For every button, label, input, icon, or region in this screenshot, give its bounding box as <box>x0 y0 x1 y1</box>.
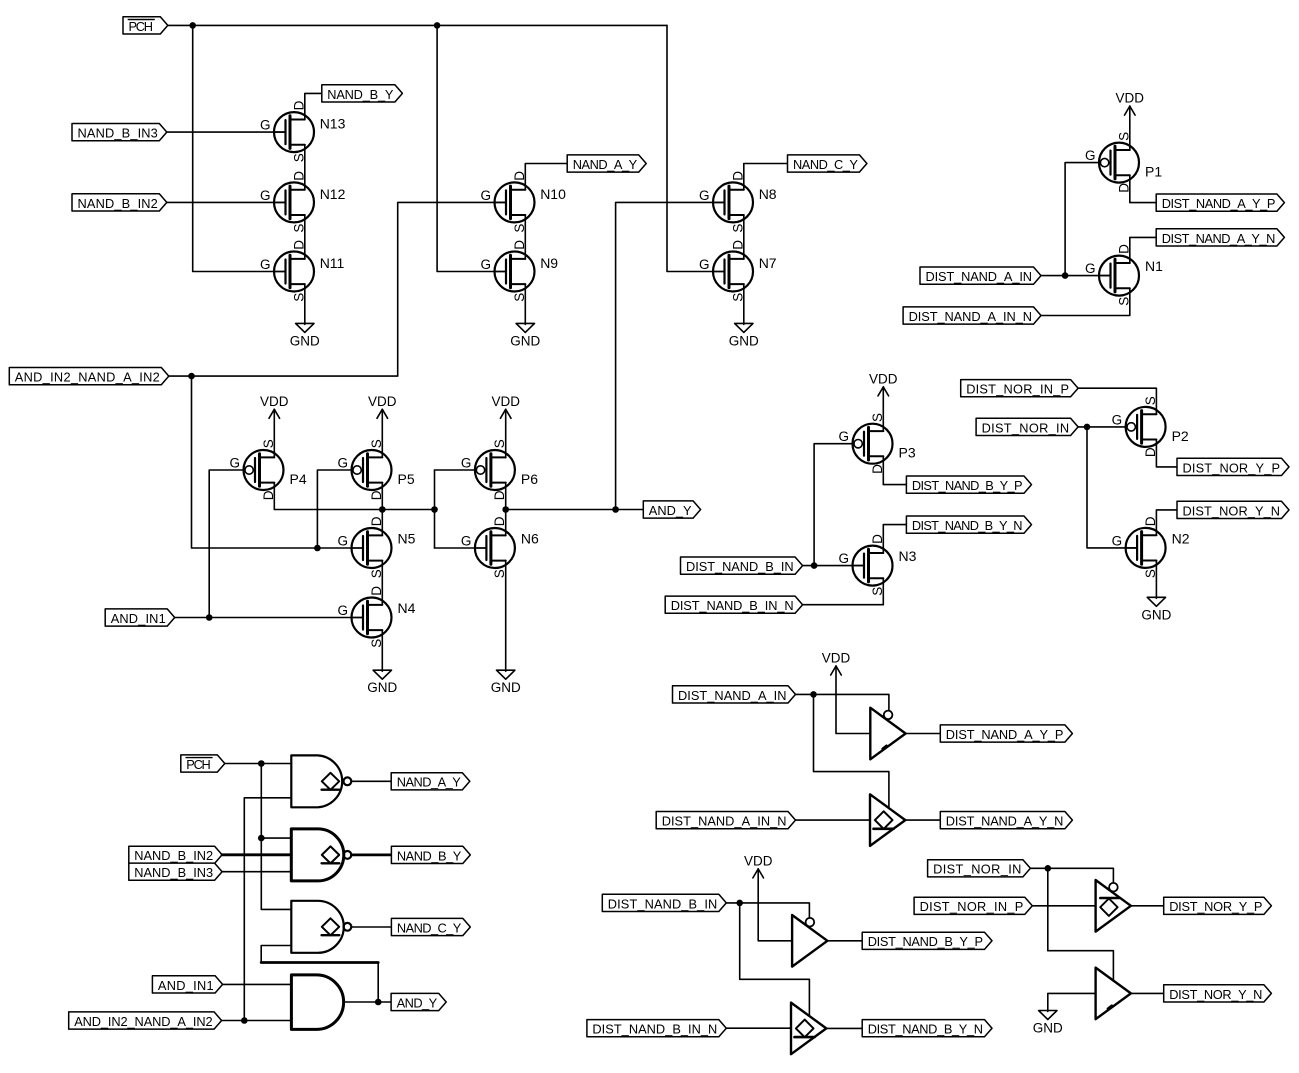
svg-text:DIST_NAND_A_Y_P: DIST_NAND_A_Y_P <box>946 727 1064 742</box>
wire AND_IN1 to N4 gate <box>175 617 363 619</box>
wire buffer B output <box>905 819 940 821</box>
svg-text:NAND_C_Y: NAND_C_Y <box>793 157 858 172</box>
wire DIST_NOR_IN_P to P2.S <box>1078 388 1156 414</box>
svg-text:VDD: VDD <box>744 853 773 868</box>
wire N6.D <box>505 510 507 536</box>
svg-text:PCH: PCH <box>186 757 211 772</box>
label DIST_NAND_A_Y_N (top) <box>1156 229 1284 246</box>
svg-text:N6: N6 <box>521 531 539 547</box>
wire AND_IN1 to P4 gate <box>209 470 245 618</box>
wire PCH to N9 gate <box>437 25 506 271</box>
svg-text:S: S <box>492 439 507 448</box>
svg-text:GND: GND <box>1141 607 1171 622</box>
svg-text:DIST_NOR_Y_N: DIST_NOR_Y_N <box>1183 503 1281 518</box>
svg-text:AND_IN2_NAND_A_IN2: AND_IN2_NAND_A_IN2 <box>74 1014 212 1029</box>
svg-text:G: G <box>337 456 348 471</box>
svg-text:DIST_NOR_Y_N: DIST_NOR_Y_N <box>1169 987 1262 1002</box>
svg-text:NAND_B_IN2: NAND_B_IN2 <box>78 196 158 211</box>
svg-text:P5: P5 <box>398 471 415 487</box>
wire P2.D to DIST_NOR_Y_P <box>1156 440 1177 467</box>
svg-text:VDD: VDD <box>822 651 851 666</box>
wire VDD to P1.S <box>1129 106 1131 150</box>
label DIST_NOR_Y_P (top) <box>1177 458 1289 475</box>
junction PCH <box>258 760 265 767</box>
transistor N10 <box>480 171 566 233</box>
tri-state buffer (DIST_NAND_A_Y_P) <box>870 708 905 760</box>
wire DIST_NAND_A_IN_N to N1.S <box>1041 288 1130 315</box>
svg-text:G: G <box>461 534 472 549</box>
label NAND_B_IN3 (bottom) <box>129 863 222 880</box>
wire AND_Y to N8 gate <box>616 202 725 509</box>
svg-text:G: G <box>838 429 849 444</box>
svg-text:PCH: PCH <box>129 19 154 34</box>
svg-text:N11: N11 <box>320 255 345 271</box>
svg-text:NAND_B_IN2: NAND_B_IN2 <box>134 848 213 863</box>
label DIST_NAND_B_Y_P (top) <box>906 476 1031 493</box>
svg-text:AND_Y: AND_Y <box>397 995 438 1010</box>
transistor N7 <box>699 240 777 302</box>
svg-text:DIST_NAND_B_IN: DIST_NAND_B_IN <box>686 559 794 574</box>
svg-text:VDD: VDD <box>260 394 289 409</box>
ground (N6) <box>491 670 521 695</box>
svg-text:G: G <box>699 257 710 272</box>
wire DIST_NAND_A_IN to P1 gate <box>1065 163 1100 276</box>
svg-text:G: G <box>229 456 240 471</box>
label NAND_C_Y (bottom) <box>391 918 470 935</box>
label AND_IN2_NAND_A_IN2 (bottom) <box>69 1012 222 1029</box>
svg-text:N7: N7 <box>759 255 777 271</box>
tri-state buffer (DIST_NAND_B_Y_N) <box>791 1003 826 1055</box>
label DIST_NAND_A_IN (top) <box>920 267 1041 284</box>
wire AND_IN2 to NAND A input <box>244 798 291 1021</box>
svg-text:P2: P2 <box>1172 428 1189 444</box>
transistor P4 <box>229 439 306 500</box>
wire N7.S to GND <box>743 284 745 324</box>
wire P4.D to NAND node <box>274 483 434 510</box>
wire DIST_NOR_IN to P2 gate <box>1078 426 1127 428</box>
wire N10 drain to NAND_A_Y <box>525 164 567 190</box>
label DIST_NAND_A_IN (bottom) <box>673 686 796 703</box>
wire buffer F output <box>1130 992 1164 994</box>
wire N8 drain to NAND_C_Y <box>744 164 788 190</box>
transistor N2 <box>1112 516 1190 578</box>
wire N5.S-N4.D <box>381 560 383 605</box>
svg-text:AND_IN1: AND_IN1 <box>158 978 214 993</box>
wire VDD to P3.S <box>882 387 884 431</box>
svg-text:DIST_NAND_B_Y_N: DIST_NAND_B_Y_N <box>912 518 1023 533</box>
svg-text:P1: P1 <box>1145 164 1162 180</box>
wire N11.S to GND <box>304 284 306 324</box>
junction DIST_NAND_B_IN (bottom) <box>736 900 743 907</box>
label NAND_A_Y (bottom) <box>391 773 470 790</box>
svg-text:G: G <box>337 534 348 549</box>
wire DIST_NOR_IN to buffer F enable <box>1048 868 1114 981</box>
wire DIST_NOR_IN to N2 gate <box>1087 427 1137 548</box>
label DIST_NAND_A_Y_P (bottom) <box>940 725 1072 742</box>
NAND gate A <box>291 755 351 807</box>
wire DIST_NAND_B_IN to P3 gate <box>814 444 854 566</box>
svg-text:G: G <box>1085 261 1096 276</box>
svg-text:VDD: VDD <box>491 394 520 409</box>
svg-text:DIST_NOR_IN_P: DIST_NOR_IN_P <box>920 899 1024 914</box>
svg-text:GND: GND <box>290 333 320 348</box>
svg-text:G: G <box>480 257 491 272</box>
wire P5.D <box>381 483 383 510</box>
svg-text:AND_Y: AND_Y <box>649 503 692 518</box>
ground (N2) <box>1141 597 1171 622</box>
svg-text:AND_IN2_NAND_A_IN2: AND_IN2_NAND_A_IN2 <box>15 370 160 385</box>
label DIST_NOR_Y_N (top) <box>1177 501 1289 518</box>
tri-state buffer (DIST_NAND_B_Y_P) <box>792 915 827 967</box>
svg-text:G: G <box>260 257 271 272</box>
wire NAND A output <box>352 780 392 782</box>
wire buffer C output <box>827 940 862 942</box>
wire buffer E output <box>1130 905 1164 907</box>
svg-text:P3: P3 <box>899 445 916 461</box>
power VDD (buffer A) <box>822 651 851 676</box>
label AND_Y (bottom) <box>391 993 446 1010</box>
wire DIST_NAND_B_IN_N to N3.S <box>803 578 884 605</box>
wire DIST_NAND_B_IN to N3 gate <box>803 565 864 567</box>
svg-text:G: G <box>260 188 271 203</box>
label AND_Y (top) <box>643 501 700 518</box>
svg-text:G: G <box>480 188 491 203</box>
transistor N8 <box>699 171 777 233</box>
transistor N13 <box>260 100 346 162</box>
transistor P3 <box>838 413 915 474</box>
wire AND_IN2 to N5 gate <box>192 376 364 548</box>
wire feedback to AND_Y <box>377 963 379 1003</box>
transistor P5 <box>337 439 414 500</box>
junction AND_Y drains <box>502 506 509 513</box>
label DIST_NOR_IN (bottom) <box>928 860 1031 877</box>
svg-text:G: G <box>260 118 271 133</box>
power VDD (P6) <box>491 394 520 419</box>
transistor N5 <box>337 516 415 578</box>
junction DIST_NAND_A_IN <box>1062 272 1069 279</box>
svg-text:N13: N13 <box>320 116 346 132</box>
wire AND_Y feedback (bold) <box>261 961 378 964</box>
svg-text:DIST_NAND_A_IN_N: DIST_NAND_A_IN_N <box>909 309 1032 324</box>
transistor N9 <box>480 240 558 302</box>
svg-text:DIST_NAND_B_Y_N: DIST_NAND_B_Y_N <box>868 1022 983 1037</box>
svg-text:NAND_A_Y: NAND_A_Y <box>397 775 462 790</box>
transistor P2 <box>1112 396 1189 457</box>
svg-text:S: S <box>369 439 384 448</box>
svg-text:N12: N12 <box>320 186 346 202</box>
svg-text:VDD: VDD <box>1116 91 1145 106</box>
wire N3.D to DIST_NAND_B_Y_N <box>883 525 906 553</box>
label DIST_NOR_Y_N (bottom) <box>1164 985 1272 1002</box>
junction DIST_NOR_IN <box>1084 424 1091 431</box>
wire VDD to P5.S <box>381 409 383 457</box>
AND gate <box>291 975 343 1030</box>
label DIST_NAND_A_IN_N (top) <box>903 307 1041 324</box>
junction PCH / N9 gate <box>434 22 441 29</box>
wire N4.S to GND <box>381 630 383 671</box>
wire NAND C output <box>352 926 392 928</box>
transistor N1 <box>1085 244 1163 306</box>
svg-text:S: S <box>261 439 276 448</box>
svg-text:VDD: VDD <box>368 394 397 409</box>
svg-text:NAND_B_Y: NAND_B_Y <box>397 848 462 863</box>
svg-text:S: S <box>870 413 885 422</box>
wire PCH to N11 gate <box>193 25 285 271</box>
ground (N4) <box>367 670 397 695</box>
svg-text:N3: N3 <box>899 548 917 564</box>
wire N8.S-N7.D <box>743 215 745 259</box>
junction DIST_NOR_IN (bottom) <box>1045 865 1052 872</box>
wire N10.S-N9.D <box>524 215 526 259</box>
tri-state buffer (DIST_NAND_A_Y_N) <box>870 794 905 846</box>
svg-text:DIST_NOR_Y_P: DIST_NOR_Y_P <box>1183 460 1281 475</box>
transistor P6 <box>461 439 538 500</box>
ground (stack N7) <box>729 323 759 348</box>
wire DIST_NOR_IN_P to buffer E <box>1032 905 1095 907</box>
wire DIST_NAND_B_IN to buffer D enable <box>740 903 810 1016</box>
wire to P6 gate <box>435 469 477 471</box>
wire PCH to NAND A input <box>225 763 291 765</box>
wire NAND C feedback elbow <box>261 946 291 963</box>
svg-text:AND_IN1: AND_IN1 <box>111 611 166 626</box>
wire N13.S-N12.D <box>304 145 306 190</box>
label DIST_NOR_IN (top) <box>976 418 1078 435</box>
wire DIST_NOR_IN to buffer E enable <box>1030 868 1113 883</box>
junction AND_Y / N8 gate <box>612 506 619 513</box>
label NAND_B_IN3 <box>72 124 167 141</box>
svg-text:N5: N5 <box>398 531 416 547</box>
wire to N6 gate <box>435 547 487 549</box>
label DIST_NAND_B_IN (top) <box>681 557 803 574</box>
tri-state buffer (DIST_NOR_Y_P) <box>1096 880 1131 932</box>
svg-text:NAND_B_IN3: NAND_B_IN3 <box>78 126 158 141</box>
label NAND_C_Y (top) <box>788 155 867 172</box>
wire AND_IN2 to N10 gate <box>169 202 506 376</box>
svg-text:N10: N10 <box>540 186 566 202</box>
wire P1.D to DIST_NAND_A_Y_P <box>1130 175 1156 202</box>
power VDD (P4) <box>260 394 289 419</box>
svg-text:G: G <box>461 456 472 471</box>
label DIST_NOR_IN_P (bottom) <box>914 897 1032 914</box>
svg-text:N2: N2 <box>1172 530 1190 546</box>
ground (stack N9) <box>510 323 540 348</box>
wire DIST_NAND_A_IN to buffer A enable <box>796 694 889 710</box>
wire N2.D to DIST_NOR_Y_N <box>1156 510 1177 535</box>
svg-text:NAND_C_Y: NAND_C_Y <box>397 920 462 935</box>
label NAND_A_Y (top) <box>567 155 646 172</box>
wire AND_Y to label <box>506 509 644 511</box>
svg-text:DIST_NAND_B_IN: DIST_NAND_B_IN <box>608 896 718 911</box>
svg-text:P4: P4 <box>290 471 307 487</box>
power VDD (P3) <box>869 371 898 396</box>
label NAND_B_Y (bottom) <box>391 846 470 863</box>
wire inverter gate vertical <box>434 470 436 548</box>
junction NAND node to inverter gates <box>431 506 438 513</box>
NAND gate B <box>291 829 351 881</box>
power VDD (P5) <box>368 394 397 419</box>
junction PCH to NAND B <box>258 835 265 842</box>
svg-text:N1: N1 <box>1145 258 1163 274</box>
wire PCH to NAND B input <box>261 837 291 839</box>
svg-text:DIST_NAND_A_IN: DIST_NAND_A_IN <box>678 688 787 703</box>
label DIST_NAND_B_IN_N (top) <box>665 596 802 613</box>
svg-text:DIST_NAND_B_IN_N: DIST_NAND_B_IN_N <box>592 1022 717 1037</box>
transistor N12 <box>260 171 346 233</box>
transistor N3 <box>838 534 916 596</box>
global label PCH (top) <box>123 17 168 34</box>
svg-text:S: S <box>1116 132 1131 141</box>
wire N1.D to DIST_NAND_A_Y_N <box>1130 237 1156 263</box>
wire PCH to NAND C input <box>261 764 291 910</box>
power VDD (buffer B) <box>744 853 773 878</box>
wire N9.S to GND <box>524 284 526 324</box>
svg-text:DIST_NAND_B_IN_N: DIST_NAND_B_IN_N <box>671 598 794 613</box>
wire to P5 gate <box>317 470 353 548</box>
wire VDD to buffer A input <box>836 666 870 734</box>
svg-text:S: S <box>1143 396 1158 405</box>
svg-text:DIST_NAND_A_Y_N: DIST_NAND_A_Y_N <box>946 814 1064 829</box>
wire N2.S to GND <box>1155 561 1157 599</box>
wire DIST_NAND_A_IN_N to buffer B <box>796 819 871 821</box>
wire DIST_NAND_B_IN_N to buffer D <box>726 1027 791 1029</box>
wire AND output <box>344 1001 392 1003</box>
wire AND_IN1 to AND gate <box>223 983 292 985</box>
transistor N11 <box>260 240 345 302</box>
svg-text:DIST_NOR_IN_P: DIST_NOR_IN_P <box>966 382 1069 397</box>
svg-text:DIST_NAND_B_Y_P: DIST_NAND_B_Y_P <box>868 934 983 949</box>
svg-text:GND: GND <box>510 333 540 348</box>
wire N5.D <box>381 510 383 536</box>
svg-text:N8: N8 <box>759 186 777 202</box>
junction PCH / N11 gate <box>189 22 196 29</box>
junction AND_IN2 net <box>188 373 195 380</box>
wire VDD to buffer C input <box>758 869 792 941</box>
label DIST_NAND_A_IN_N (bottom) <box>656 812 795 829</box>
junction NAND node drains <box>379 506 386 513</box>
label DIST_NAND_A_Y_N (bottom) <box>940 812 1072 829</box>
label DIST_NOR_IN_P (top) <box>961 380 1078 397</box>
svg-text:G: G <box>1085 148 1096 163</box>
label DIST_NAND_B_Y_P (bottom) <box>862 932 992 949</box>
junction N5/P5 gates <box>314 545 321 552</box>
tri-state buffer (DIST_NOR_Y_N) <box>1096 968 1131 1020</box>
label DIST_NAND_B_Y_N (top) <box>906 516 1031 533</box>
svg-text:G: G <box>1112 412 1123 427</box>
wire VDD to P6.S <box>505 409 507 457</box>
junction DIST_NAND_A_IN (bottom) <box>810 691 817 698</box>
wire NAND_B_IN2 to N12 gate <box>167 201 286 203</box>
junction AND_Y (bottom) <box>375 999 382 1006</box>
svg-text:G: G <box>699 188 710 203</box>
label DIST_NAND_A_Y_P (top) <box>1156 194 1284 211</box>
junction AND_IN1 / P4 gate <box>206 614 213 621</box>
wire P6.D <box>505 483 507 510</box>
svg-text:N4: N4 <box>398 600 416 616</box>
wire PCH to N7 gate <box>667 25 724 271</box>
global label PCH (bottom) <box>181 755 225 772</box>
svg-text:DIST_NAND_A_Y_N: DIST_NAND_A_Y_N <box>1162 231 1276 246</box>
ground (stack N11) <box>290 323 320 348</box>
svg-text:G: G <box>838 551 849 566</box>
label DIST_NAND_B_IN_N (bottom) <box>587 1020 726 1037</box>
svg-text:DIST_NAND_A_Y_P: DIST_NAND_A_Y_P <box>1162 196 1276 211</box>
wire buffer A output <box>906 733 941 735</box>
svg-text:DIST_NOR_IN: DIST_NOR_IN <box>933 862 1021 877</box>
svg-text:NAND_B_IN3: NAND_B_IN3 <box>134 865 213 880</box>
junction DIST_NAND_B_IN <box>811 562 818 569</box>
wire VDD to P4.S <box>273 409 275 457</box>
wire GND to buffer F input <box>1048 993 1096 1011</box>
wire NAND B output (bold) <box>352 854 392 857</box>
label NAND_B_IN2 (top) <box>72 194 167 211</box>
svg-text:G: G <box>337 603 348 618</box>
label AND_IN2_NAND_A_IN2 (top) <box>9 368 169 385</box>
svg-text:N9: N9 <box>540 255 558 271</box>
wire NAND_B_IN3 <box>222 871 291 873</box>
wire NAND_B_IN2 (bold) <box>222 853 291 856</box>
svg-text:DIST_NAND_A_IN: DIST_NAND_A_IN <box>926 269 1033 284</box>
svg-text:DIST_NAND_B_Y_P: DIST_NAND_B_Y_P <box>912 478 1023 493</box>
junction AND_IN2 (bottom) <box>241 1017 248 1024</box>
svg-text:DIST_NOR_Y_P: DIST_NOR_Y_P <box>1169 899 1262 914</box>
svg-text:G: G <box>1112 533 1123 548</box>
wire NAND_B_IN3 to N13 gate <box>167 131 286 133</box>
label DIST_NAND_B_Y_N (bottom) <box>862 1020 992 1037</box>
ground (buffer F) <box>1033 1011 1063 1036</box>
svg-text:DIST_NAND_A_IN_N: DIST_NAND_A_IN_N <box>662 814 787 829</box>
svg-text:GND: GND <box>1033 1021 1063 1036</box>
wire DIST_NAND_B_IN to buffer C enable <box>726 903 809 918</box>
wire N13 drain to NAND_B_Y <box>305 93 322 119</box>
wire buffer D output <box>826 1027 862 1029</box>
wire P3.D to DIST_NAND_B_Y_P <box>883 456 906 484</box>
label NAND_B_Y (top) <box>322 85 403 102</box>
label DIST_NOR_Y_P (bottom) <box>1164 897 1272 914</box>
svg-text:DIST_NOR_IN: DIST_NOR_IN <box>982 420 1070 435</box>
svg-text:P6: P6 <box>521 471 538 487</box>
transistor N4 <box>337 586 415 648</box>
wire N12.S-N11.D <box>304 215 306 259</box>
svg-text:NAND_B_Y: NAND_B_Y <box>327 87 394 102</box>
transistor N6 <box>461 516 539 578</box>
label AND_IN1 (bottom) <box>152 976 222 993</box>
wire N6.S to GND <box>505 560 507 671</box>
svg-text:VDD: VDD <box>869 371 898 386</box>
label DIST_NAND_B_IN (bottom) <box>602 894 726 911</box>
svg-text:GND: GND <box>491 680 521 695</box>
power VDD (P1) <box>1116 91 1145 116</box>
wire DIST_NAND_A_IN to buffer B enable <box>814 694 889 808</box>
wire DIST_NAND_A_IN to N1 gate <box>1041 275 1111 277</box>
label AND_IN1 (top) <box>105 609 175 626</box>
svg-text:GND: GND <box>729 333 759 348</box>
svg-text:GND: GND <box>367 680 397 695</box>
NAND gate C <box>291 901 351 953</box>
wire AND_IN2 to AND gate <box>222 1020 292 1022</box>
transistor P1 <box>1085 132 1162 193</box>
svg-text:NAND_A_Y: NAND_A_Y <box>573 157 638 172</box>
wire PCH horizontal <box>168 24 667 26</box>
label NAND_B_IN2 (bottom) <box>129 846 222 863</box>
